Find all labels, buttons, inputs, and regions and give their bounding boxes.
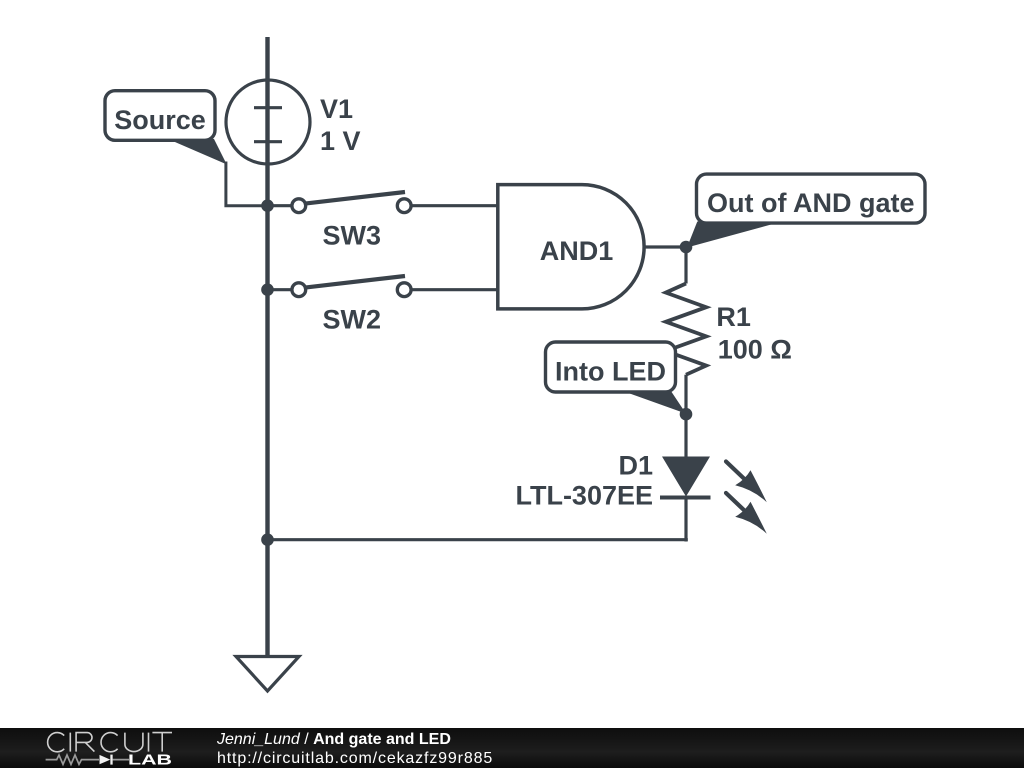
svg-text:R1: R1: [716, 302, 751, 332]
wire SW3 to AND gate input A: [412, 204, 498, 207]
node junction at SW3: [261, 199, 274, 212]
logo letter U: [125, 733, 143, 752]
svg-text:Out of AND gate: Out of AND gate: [707, 188, 914, 218]
footer title line: [217, 731, 451, 749]
callout Source pointer wire: [226, 162, 268, 206]
svg-text:LAB: LAB: [128, 753, 172, 768]
callout Source box: [105, 91, 215, 141]
wire AND1 output: [644, 245, 686, 248]
svg-text:1 V: 1 V: [320, 126, 361, 156]
callout Out-of-AND-gate pointer: [687, 222, 782, 248]
logo letter T: [152, 733, 172, 752]
svg-text:AND1: AND1: [540, 236, 614, 266]
switch SW3 lever: [305, 192, 405, 204]
callout Out-of-AND-gate box: [697, 174, 926, 223]
svg-text:100 Ω: 100 Ω: [718, 335, 792, 365]
wire main vertical trunk: [265, 37, 269, 656]
wire bottom return: [268, 538, 688, 541]
node junction AND1 output: [680, 241, 693, 254]
logo letter R: [76, 733, 94, 752]
logo resistor squiggle: [46, 755, 99, 764]
callout Into-LED pointer: [621, 391, 686, 414]
wire LED D1 cathode lead: [684, 498, 687, 542]
svg-text:Into LED: Into LED: [555, 356, 666, 386]
logo letter C: [101, 733, 118, 752]
LED D1 light arrow 2: [726, 493, 767, 534]
logo letter C: [48, 733, 65, 752]
logo letter I: [148, 733, 150, 752]
svg-text:Source: Source: [114, 105, 206, 135]
node junction at SW2: [261, 283, 274, 296]
callout Source pointer: [168, 139, 227, 164]
LED D1 light arrow 1: [726, 462, 767, 503]
footer bar: [0, 728, 1024, 768]
logo diode: [100, 755, 111, 764]
ground symbol: [236, 657, 299, 692]
switch SW3 contact circle right: [397, 199, 411, 213]
node junction into LED: [680, 408, 693, 421]
svg-text:D1: D1: [618, 451, 653, 481]
logo letter I: [69, 733, 71, 752]
wire SW2 left lead: [268, 288, 292, 291]
switch SW2 contact circle right: [397, 283, 411, 297]
footer url line: [217, 750, 493, 768]
V1 plate bottom: [254, 140, 282, 143]
callout Into-LED box: [546, 342, 676, 392]
switch SW2 contact circle left: [292, 283, 306, 297]
wire resistor R1 bottom lead: [684, 375, 687, 415]
LED D1 triangle: [662, 457, 710, 497]
svg-text:SW2: SW2: [323, 305, 382, 335]
wire LED D1 anode lead: [684, 414, 687, 457]
node junction bottom return: [261, 533, 274, 546]
svg-text:V1: V1: [320, 94, 353, 124]
CircuitLab logo: [0, 728, 200, 768]
svg-text:SW3: SW3: [323, 220, 382, 250]
svg-text:LTL-307EE: LTL-307EE: [515, 481, 653, 511]
switch SW3 contact circle left: [292, 199, 306, 213]
switch SW2 lever: [305, 276, 405, 288]
wire SW3 left lead: [268, 204, 292, 207]
wire SW2 to AND gate input B: [412, 288, 498, 291]
LED D1 cathode bar: [660, 496, 711, 500]
V1 plate top: [254, 106, 282, 109]
wire resistor R1 top lead: [684, 247, 687, 284]
and-gate AND1 body: [498, 185, 644, 309]
resistor R1 zigzag: [666, 284, 706, 375]
voltage source V1 circle: [226, 80, 310, 164]
